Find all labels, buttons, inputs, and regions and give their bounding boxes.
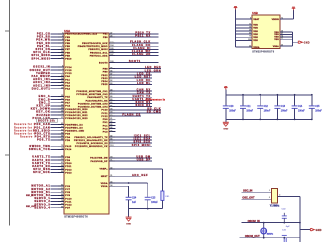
svg-text:FLASH_DO: FLASH_DO	[132, 44, 151, 47]
svg-text:KEY_OK: KEY_OK	[36, 111, 50, 114]
wire net SPI4_MOSI to U1A	[51, 58, 65, 60]
pin stub	[109, 157, 115, 159]
svg-text:PB3/JTDO/SPI3_SCK: PB3/JTDO/SPI3_SCK	[82, 43, 108, 45]
wire net MOTOR_B1 to U1A	[51, 191, 65, 193]
svg-text:ADC1_IN1: ADC1_IN1	[33, 78, 50, 81]
svg-text:FLASH_CS: FLASH_CS	[122, 114, 140, 117]
wire OSC_OUT	[242, 198, 272, 200]
pin stub	[109, 48, 115, 50]
svg-text:SERVO_3: SERVO_3	[34, 203, 50, 206]
svg-text:SD_CLK: SD_CLK	[147, 107, 161, 110]
svg-text:FB1: FB1	[165, 196, 170, 198]
wire VDD to U1B pin 100	[236, 39, 253, 41]
svg-text:PD5: PD5	[65, 140, 70, 142]
pin stub	[58, 36, 64, 38]
wire from U1A pin 79	[109, 112, 161, 114]
wire net UART3_RX to U1A	[51, 165, 65, 167]
wire VSSA	[280, 45, 293, 47]
svg-text:BOOT0: BOOT0	[99, 62, 108, 64]
crystal Y2 32kHz	[261, 223, 267, 238]
wire from U1A pin 48	[109, 36, 159, 38]
pin stub	[109, 90, 115, 92]
svg-text:PD9: PD9	[65, 160, 70, 162]
wire VDD33 vertical	[293, 10, 295, 19]
wire bead to rail	[161, 200, 163, 208]
svg-text:LCD_DC: LCD_DC	[137, 79, 151, 82]
pin stub	[109, 55, 115, 57]
svg-text:U1B: U1B	[252, 11, 258, 15]
wire net PD0_CAN to U1A	[51, 124, 65, 126]
wire VDDA vertical	[147, 183, 149, 197]
svg-text:ADC_REF: ADC_REF	[132, 174, 148, 177]
svg-text:PC7: PC7	[65, 189, 70, 191]
wire from U1A pin 65	[109, 103, 152, 105]
svg-text:OSC32_OUT: OSC32_OUT	[30, 69, 51, 72]
svg-text:PE5_RD: PE5_RD	[37, 42, 51, 45]
pin stub	[109, 145, 115, 147]
svg-text:32kHz: 32kHz	[267, 233, 274, 235]
wire net SPI2_NSS to U1A	[51, 168, 65, 170]
wire top rail	[226, 94, 312, 96]
wire from U1A pin 92	[109, 136, 152, 138]
svg-text:SPI2_NSS: SPI2_NSS	[33, 168, 50, 171]
wire OSC32_OUT	[240, 237, 300, 239]
wire flag to rail	[225, 89, 227, 94]
pin stub	[109, 175, 115, 177]
svg-text:SD_CMD: SD_CMD	[147, 111, 161, 114]
pin stub	[58, 194, 64, 196]
svg-text:2: 2	[269, 197, 270, 199]
svg-text:VDD: VDD	[253, 40, 258, 42]
svg-text:PC3: PC3	[103, 132, 108, 134]
pin stub	[109, 80, 115, 82]
svg-text:PE5: PE5	[65, 43, 70, 45]
svg-text:VDD: VDD	[253, 28, 258, 30]
junction top rail	[259, 94, 261, 96]
svg-text:PC15: PC15	[65, 70, 72, 72]
svg-text:PD1/FSMC_D3: PD1/FSMC_D3	[65, 128, 83, 130]
wire net SERVO_4 to U1A	[51, 207, 65, 209]
wire from U1A pin 71	[109, 160, 152, 162]
wire VDD bus vertical	[235, 10, 237, 47]
svg-text:VSS: VSS	[274, 34, 279, 36]
svg-text:CAN_RX: CAN_RX	[137, 89, 151, 92]
svg-text:PE3_RS: PE3_RS	[37, 36, 51, 39]
wire net SPI4_MISO to U1A	[51, 55, 65, 57]
svg-text:PE3: PE3	[65, 37, 70, 39]
power flag VDD bank	[224, 86, 228, 90]
pin stub	[109, 118, 115, 120]
wire net KEY_DOWN to U1A	[51, 108, 65, 110]
wire to ground	[225, 119, 227, 122]
wire OSC_IN	[242, 191, 272, 193]
svg-text:PE9: PE9	[65, 55, 70, 57]
pin stub	[58, 111, 64, 113]
svg-text:PC10/SPI3_SCK/SDIO_D2: PC10/SPI3_SCK/SDIO_D2	[76, 143, 108, 145]
svg-text:100nF: 100nF	[264, 110, 271, 112]
svg-text:PB5/SPI3_MOSI: PB5/SPI3_MOSI	[88, 49, 107, 51]
svg-text:PD10: PD10	[65, 163, 72, 165]
svg-text:STM32F405RGT6: STM32F405RGT6	[252, 51, 275, 54]
pin stub	[58, 85, 64, 87]
pin stub	[109, 106, 115, 108]
pin stub	[58, 139, 64, 141]
svg-text:MOTOR_B2: MOTOR_B2	[31, 194, 50, 197]
pin stub	[109, 112, 115, 114]
sheet border tick 2	[5, 154, 10, 156]
svg-text:GND: GND	[316, 230, 322, 232]
svg-text:PD4_RTS: PD4_RTS	[35, 136, 51, 139]
svg-text:PD12: PD12	[65, 169, 72, 171]
svg-text:PE6_BL: PE6_BL	[37, 45, 50, 48]
pin stub	[58, 82, 64, 84]
svg-text:VDD: VDD	[253, 31, 258, 33]
svg-text:SPI4_MISO: SPI4_MISO	[31, 54, 50, 57]
pin stub	[58, 105, 64, 107]
wire ground rail vertical	[299, 196, 301, 242]
wire VDD to U1B pin 19	[236, 27, 253, 29]
pin stub	[109, 61, 115, 63]
pin stub	[109, 33, 115, 35]
junction	[263, 222, 265, 224]
wire U1B VDD33	[280, 18, 294, 20]
svg-text:10: 10	[281, 31, 283, 33]
pin stub	[109, 36, 115, 38]
svg-text:VDD: VDD	[253, 37, 258, 39]
junction bottom rail	[259, 119, 261, 121]
svg-text:PC2: PC2	[103, 128, 108, 130]
junction	[283, 237, 285, 239]
svg-text:USB_DP: USB_DP	[137, 159, 151, 162]
svg-text:PB9: PB9	[103, 72, 108, 74]
pin stub	[58, 96, 64, 98]
wire from U1A pin 51	[109, 77, 152, 79]
wire net PC13_LED to U1A	[51, 117, 65, 119]
wire OSC32_IN	[242, 222, 300, 224]
wire VREF+ vertical	[161, 169, 163, 191]
pin stub	[109, 168, 115, 170]
svg-text:100nF: 100nF	[281, 110, 288, 112]
wire net UART2_TX to U1A	[51, 156, 65, 158]
svg-text:100nF: 100nF	[298, 110, 305, 112]
svg-text:Reserve for 3: Reserve for 3	[14, 129, 36, 132]
wire net MOTOR_A1 to U1A	[51, 185, 65, 187]
wire net ADC1_IN1 to U1A	[51, 78, 65, 80]
svg-text:PC6/I2S2_MCK/TIM8_CH1: PC6/I2S2_MCK/TIM8_CH1	[76, 91, 108, 93]
wire net PE3_RS to U1A	[51, 36, 65, 38]
svg-text:C15: C15	[315, 106, 320, 108]
wire VSS pin 27	[280, 33, 293, 35]
capacitor C24	[126, 197, 137, 209]
junction bottom rail	[242, 119, 244, 121]
svg-text:PC11: PC11	[65, 201, 72, 203]
svg-text:PD11: PD11	[65, 166, 72, 168]
svg-text:FLASH_DI: FLASH_DI	[133, 47, 150, 50]
svg-text:DAC_OUT1: DAC_OUT1	[32, 87, 51, 90]
pin stub	[58, 165, 64, 167]
pin stub	[58, 69, 64, 71]
wire from U1A pin 136	[109, 51, 159, 53]
wire net PD4_RTS to U1A	[51, 136, 65, 138]
svg-text:PC12: PC12	[65, 205, 72, 207]
wire to GND port	[293, 41, 299, 43]
svg-text:UART3_RX: UART3_RX	[32, 165, 50, 168]
power flag VDD	[234, 6, 238, 10]
pin stub U1A pin 26	[109, 128, 115, 130]
svg-text:GND: GND	[304, 43, 310, 45]
wire net KEY_OK to U1A	[51, 111, 65, 113]
svg-text:C14: C14	[298, 105, 303, 108]
wire net SWDIO_TMS to U1A	[51, 145, 65, 147]
junction	[263, 237, 265, 239]
pin stub	[58, 124, 64, 126]
sheet border line	[9, 0, 11, 226]
svg-text:SPI4_MOSI: SPI4_MOSI	[31, 57, 50, 60]
svg-text:PD2_SDIO: PD2_SDIO	[33, 129, 51, 132]
capacitor C22	[282, 209, 291, 228]
wire net PD5_TX to U1A	[51, 139, 65, 141]
svg-text:PE7: PE7	[65, 49, 70, 51]
svg-text:PE4_WR: PE4_WR	[36, 39, 50, 42]
pin stub	[58, 172, 64, 174]
svg-text:11: 11	[249, 23, 251, 25]
svg-text:6pF: 6pF	[286, 226, 291, 228]
wire net UART3_TX to U1A	[51, 162, 65, 164]
wire from U1A pin 135	[109, 48, 159, 50]
junction	[147, 208, 149, 210]
svg-text:BUZZER: BUZZER	[36, 114, 50, 117]
pin stub	[58, 55, 64, 57]
pin stub	[58, 156, 64, 158]
junction top rail	[311, 94, 313, 96]
wire net SERVO_3 to U1A	[51, 204, 65, 206]
capacitor C21	[282, 229, 287, 242]
wire net ENC_A to U1A	[51, 96, 65, 98]
pin stub	[109, 96, 115, 98]
wire net MOTOR_B2 to U1A	[51, 194, 65, 196]
svg-text:PD3_CTS: PD3_CTS	[35, 133, 51, 136]
wire from U1A pin 44	[109, 90, 152, 92]
svg-text:C11: C11	[246, 106, 251, 108]
svg-text:LED_GRN: LED_GRN	[145, 69, 162, 72]
svg-text:1: 1	[269, 190, 270, 192]
svg-text:19: 19	[249, 26, 251, 28]
pin stub	[109, 124, 115, 126]
svg-text:SERVO_1: SERVO_1	[34, 197, 50, 200]
pin stub	[58, 136, 64, 138]
wire net PE2_CS to U1A	[51, 33, 65, 35]
wire net OSC32_IN to U1A	[51, 66, 65, 68]
svg-text:KEY_DOWN: KEY_DOWN	[31, 108, 51, 111]
wire from U1A pin 53	[109, 83, 152, 85]
wire from U1A pin 134	[109, 45, 159, 47]
wire net SERVO_2 to U1A	[51, 201, 65, 203]
wire net BUZZER to U1A	[51, 114, 65, 116]
port GND arrow right	[310, 228, 321, 232]
svg-text:SPI4_CS: SPI4_CS	[36, 48, 51, 51]
pin stub	[109, 115, 115, 117]
svg-text:Y1 8MHz: Y1 8MHz	[270, 205, 280, 207]
wire net PD3_CTS to U1A	[51, 133, 65, 135]
pin stub	[58, 72, 64, 74]
wire net PE6_BL to U1A	[51, 45, 65, 47]
pin stub	[109, 139, 115, 141]
wire from U1A pin 80	[109, 115, 141, 117]
svg-text:32K_IN: 32K_IN	[26, 195, 34, 197]
svg-text:NRST: NRST	[101, 176, 108, 178]
microcontroller U1A body	[64, 33, 109, 214]
svg-text:6: 6	[250, 18, 251, 20]
svg-text:PD2/SDIO_CMD: PD2/SDIO_CMD	[65, 131, 84, 133]
svg-text:SERVO_4: SERVO_4	[34, 206, 50, 209]
svg-text:PC12: PC12	[101, 116, 108, 118]
svg-text:TAMPER: TAMPER	[36, 72, 50, 75]
wire from U1A pin 95	[109, 68, 161, 70]
wire net ENC_B to U1A	[51, 99, 65, 101]
pin stub	[58, 114, 64, 116]
wire crystal case	[278, 195, 300, 197]
svg-text:SPI3_SCK: SPI3_SCK	[134, 141, 151, 144]
pin stub	[58, 148, 64, 150]
wire to ground	[128, 209, 130, 217]
svg-text:USB_DM: USB_DM	[136, 155, 150, 158]
svg-text:PD1_CAN: PD1_CAN	[34, 126, 50, 129]
pin stub U1A pin 21	[109, 118, 115, 120]
wire net PA0_WKUP to U1A	[51, 75, 65, 77]
pin stub	[58, 168, 64, 170]
pin stub	[109, 109, 115, 111]
wire net MOTOR_A2 to U1A	[51, 188, 65, 190]
junction top rail	[294, 94, 296, 96]
svg-text:C12: C12	[264, 106, 269, 108]
svg-text:LCD_BL: LCD_BL	[137, 82, 151, 85]
svg-text:28: 28	[249, 30, 251, 32]
svg-text:PC8/SDIO_D0/TIM8_CH3: PC8/SDIO_D0/TIM8_CH3	[78, 103, 108, 105]
svg-text:Reserve: Reserve	[20, 136, 33, 139]
svg-text:VDD: VDD	[253, 25, 258, 27]
junction top rail	[242, 94, 244, 96]
wire from U1A pin 45	[109, 93, 152, 95]
svg-text:FLASH_CLK: FLASH_CLK	[130, 41, 151, 44]
wire from U1A pin 33	[109, 182, 148, 184]
svg-text:PD5_TX: PD5_TX	[37, 139, 50, 142]
svg-text:CAN_TX: CAN_TX	[137, 92, 151, 95]
svg-text:100nF: 100nF	[246, 110, 253, 112]
sheet border tick 1	[5, 30, 10, 32]
svg-text:ADC1_IN3: ADC1_IN3	[33, 84, 50, 87]
svg-text:100nF: 100nF	[229, 110, 236, 112]
svg-text:I2C1_SCL: I2C1_SCL	[134, 135, 151, 138]
wire from U1A pin 69	[109, 99, 152, 101]
svg-text:BOOT1: BOOT1	[129, 60, 141, 63]
svg-text:VSS: VSS	[274, 32, 279, 34]
wire from U1A pin 111	[109, 142, 152, 144]
svg-text:PH1: PH1	[103, 122, 108, 124]
pin stub	[109, 51, 115, 53]
wire analog ground rail	[129, 208, 163, 210]
pin stub	[58, 51, 64, 53]
svg-text:1uF: 1uF	[132, 202, 137, 204]
svg-text:C13: C13	[281, 106, 286, 108]
pin stub	[58, 99, 64, 101]
svg-text:75: 75	[249, 36, 251, 38]
pin stub	[109, 45, 115, 47]
svg-text:32K_OUT: 32K_OUT	[26, 206, 37, 208]
pin stub	[58, 33, 64, 35]
svg-text:LCD_RST: LCD_RST	[135, 76, 151, 79]
svg-text:GND: GND	[223, 129, 228, 131]
svg-text:C24: C24	[132, 197, 137, 200]
svg-text:50: 50	[249, 33, 251, 35]
wire from U1A pin 78	[109, 109, 161, 111]
wire VDD to U1B pin 6	[236, 18, 253, 20]
svg-text:PC7/I2S3_MCK/TIM8_CH2: PC7/I2S3_MCK/TIM8_CH2	[76, 94, 108, 96]
junction bottom rail	[294, 119, 296, 121]
wire net PD2_SDIO to U1A	[51, 130, 65, 132]
wire from U1A pin 47	[109, 33, 159, 35]
wire from U1A pin 97	[109, 74, 152, 76]
svg-text:PC12/SPI3_MOSI/SDIO_CK: PC12/SPI3_MOSI/SDIO_CK	[75, 146, 108, 148]
pin stub	[109, 182, 115, 184]
pin stub	[58, 66, 64, 68]
svg-text:PC6: PC6	[65, 186, 70, 188]
wire VDD to U1B pin 50	[236, 33, 253, 35]
wire net ENC_Z to U1A	[51, 102, 65, 104]
svg-text:PC13: PC13	[65, 73, 72, 75]
pin stub	[109, 93, 115, 95]
wire VDD to U1B pin 22	[236, 46, 253, 48]
svg-text:Reserve for 1: Reserve for 1	[14, 123, 36, 126]
svg-text:99: 99	[281, 38, 283, 40]
svg-text:PC1: PC1	[103, 125, 108, 127]
capacitor C23	[145, 197, 159, 209]
pin stub	[58, 78, 64, 80]
pin stub	[58, 159, 64, 161]
wire net SWCLK_TCK to U1A	[51, 148, 65, 150]
junction	[128, 182, 130, 184]
svg-text:UART1_TX: UART1_TX	[133, 95, 151, 98]
wire from U1A pin 34	[109, 185, 129, 187]
pin stub	[58, 127, 64, 129]
svg-text:PC11: PC11	[101, 113, 108, 115]
svg-text:SDIO_D1: SDIO_D1	[136, 104, 151, 107]
pin stub	[109, 185, 115, 187]
pin stub	[109, 142, 115, 144]
pin stub	[58, 102, 64, 104]
svg-text:PE2_CS: PE2_CS	[37, 33, 51, 36]
pin stub	[58, 207, 64, 209]
svg-text:PD8: PD8	[65, 157, 70, 159]
svg-text:U1A: U1A	[64, 29, 71, 33]
wire from U1A pin 113	[109, 145, 152, 147]
svg-text:PB8: PB8	[103, 69, 108, 71]
svg-text:C21: C21	[282, 229, 287, 231]
svg-text:C22: C22	[282, 209, 287, 211]
svg-text:KEY_UP: KEY_UP	[36, 105, 50, 108]
pin stub	[58, 130, 64, 132]
svg-text:LCD_CS: LCD_CS	[137, 73, 151, 76]
pin stub	[58, 191, 64, 193]
pin stub	[58, 133, 64, 135]
crystal Y1 body	[272, 189, 278, 203]
wire net SPI4_CS to U1A	[51, 48, 65, 50]
wire from U1A pin 96	[109, 71, 161, 73]
wire VSS pin 10	[280, 31, 293, 33]
svg-text:LED_RED: LED_RED	[145, 66, 161, 69]
svg-text:PD0/FSMC_D2: PD0/FSMC_D2	[65, 124, 83, 126]
svg-text:UART3_TX: UART3_TX	[32, 162, 50, 165]
wire from U1A pin 137	[109, 55, 159, 57]
